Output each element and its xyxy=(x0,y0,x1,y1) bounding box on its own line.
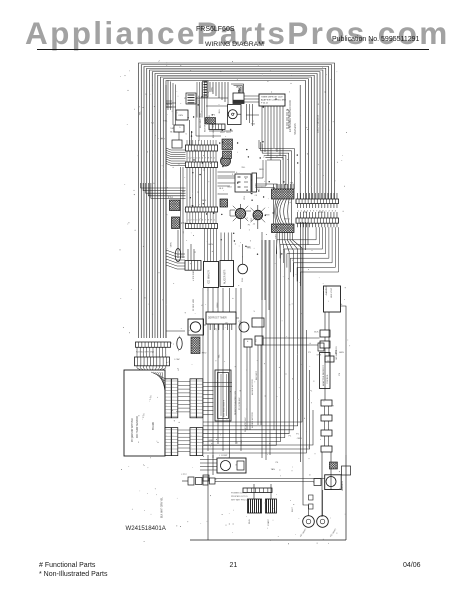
svg-text:TAN: TAN xyxy=(170,127,175,130)
svg-text:P 20 J4: P 20 J4 xyxy=(261,103,269,105)
svg-text:PROPER OUT CL: PROPER OUT CL xyxy=(231,496,249,498)
svg-text:RUN: RUN xyxy=(249,519,251,524)
svg-text:1: 1 xyxy=(214,158,216,160)
svg-text:··: ·· xyxy=(166,380,168,382)
svg-text:··: ·· xyxy=(166,448,168,450)
svg-text:··: ·· xyxy=(198,435,200,437)
svg-text:J2: J2 xyxy=(253,223,256,225)
svg-text:TAN: TAN xyxy=(271,468,276,471)
svg-text:BLK WHT ORN: BLK WHT ORN xyxy=(209,115,211,130)
svg-text:P4: P4 xyxy=(256,339,258,342)
svg-text:5: 5 xyxy=(310,211,312,213)
svg-text:CON 4: CON 4 xyxy=(318,212,326,214)
svg-text:··: ·· xyxy=(166,386,168,388)
svg-text:YEL: YEL xyxy=(181,191,186,193)
svg-text:# ICE MKR: # ICE MKR xyxy=(193,270,195,281)
svg-text:BLK: BLK xyxy=(202,200,207,202)
svg-text:FF DEF HTR: FF DEF HTR xyxy=(193,298,195,311)
svg-text:BLK WHT GRN YEL: BLK WHT GRN YEL xyxy=(162,496,164,518)
svg-text:··: ·· xyxy=(191,429,193,431)
svg-text:EXTENDER FRESH FOOD: EXTENDER FRESH FOOD xyxy=(288,100,292,132)
svg-text:HARNESS: HARNESS xyxy=(341,480,344,491)
svg-text:YEL: YEL xyxy=(241,167,246,169)
svg-text:··: ·· xyxy=(198,386,200,388)
svg-text:6: 6 xyxy=(202,220,204,222)
svg-text:DEFROST HEATER 120V: DEFROST HEATER 120V xyxy=(234,390,237,415)
svg-text:1: 1 xyxy=(214,220,216,222)
svg-text:LINE VOLT: LINE VOLT xyxy=(331,287,333,298)
svg-text:RED: RED xyxy=(241,439,243,444)
svg-text:5: 5 xyxy=(199,158,201,160)
svg-text:ADAPTIVE CONTROL BRD: ADAPTIVE CONTROL BRD xyxy=(261,99,286,102)
svg-text:6: 6 xyxy=(202,158,204,160)
svg-text:5: 5 xyxy=(186,133,188,135)
svg-text:FRZ TEMP SENSOR: FRZ TEMP SENSOR xyxy=(137,416,139,438)
svg-text:··: ·· xyxy=(191,393,193,395)
svg-text:YEL: YEL xyxy=(163,120,168,122)
svg-text:YEL: YEL xyxy=(244,195,246,200)
svg-text:8: 8 xyxy=(208,158,210,160)
svg-text:1: 1 xyxy=(188,158,190,160)
svg-text:TIMER DEFROST 120V: TIMER DEFROST 120V xyxy=(261,97,283,99)
svg-text:GRN: GRN xyxy=(316,355,321,357)
svg-text:P1: P1 xyxy=(248,224,251,226)
svg-text:··: ·· xyxy=(198,399,200,401)
svg-text:··: ·· xyxy=(173,412,175,414)
svg-text:W241518401A: W241518401A xyxy=(126,525,167,532)
svg-text:ORN: ORN xyxy=(297,438,302,440)
svg-text:BLK WHT ORN: BLK WHT ORN xyxy=(205,117,207,132)
svg-text:FILL: FILL xyxy=(242,277,244,282)
svg-text:BLK: BLK xyxy=(256,189,261,191)
svg-text:··: ·· xyxy=(191,405,193,407)
svg-text:SHT WRT PRL CO: SHT WRT PRL CO xyxy=(231,500,249,502)
svg-text:P4: P4 xyxy=(339,372,341,375)
svg-text:ORN: ORN xyxy=(212,87,214,92)
svg-text:8: 8 xyxy=(208,220,210,222)
svg-text:3: 3 xyxy=(193,220,195,222)
svg-text:AUGER MTR: AUGER MTR xyxy=(224,269,227,284)
svg-text:12: 12 xyxy=(269,442,271,445)
svg-text:BOARD: BOARD xyxy=(152,421,155,430)
svg-text:··: ·· xyxy=(191,435,193,437)
svg-text:5: 5 xyxy=(199,220,201,222)
svg-text:GRN: GRN xyxy=(339,352,344,354)
svg-text:BLU: BLU xyxy=(228,187,233,189)
svg-text:5995 P HARNESS: 5995 P HARNESS xyxy=(317,114,320,133)
svg-text:··: ·· xyxy=(173,405,175,407)
svg-text:GRN: GRN xyxy=(199,95,201,100)
svg-text:P4: P4 xyxy=(151,123,154,125)
svg-text:··: ·· xyxy=(166,429,168,431)
svg-text:BLK WHT: BLK WHT xyxy=(256,370,258,380)
svg-text:AUGER MOTOR: AUGER MOTOR xyxy=(251,379,254,395)
svg-text:5: 5 xyxy=(179,127,181,129)
svg-text:··: ·· xyxy=(198,448,200,450)
svg-text:P4: P4 xyxy=(213,115,216,117)
svg-text:WHT: WHT xyxy=(220,132,226,134)
svg-text:ADAPTIVE DEFROST: ADAPTIVE DEFROST xyxy=(322,364,325,386)
svg-text:3: 3 xyxy=(332,211,334,213)
svg-text:P4: P4 xyxy=(276,462,279,464)
svg-text:GRY: GRY xyxy=(275,234,277,239)
svg-text:4: 4 xyxy=(196,220,198,222)
svg-text:ORN: ORN xyxy=(178,115,183,117)
svg-text:HARNESS: HARNESS xyxy=(294,123,297,135)
svg-text:··: ·· xyxy=(191,412,193,414)
svg-text:P1: P1 xyxy=(289,436,292,438)
svg-text:··: ·· xyxy=(173,380,175,382)
svg-text:··: ·· xyxy=(198,429,200,431)
svg-text:P6 SENSOR WHT BLK: P6 SENSOR WHT BLK xyxy=(132,418,134,442)
svg-text:BRN: BRN xyxy=(217,302,219,307)
svg-text:2: 2 xyxy=(329,211,331,213)
svg-text:P1: P1 xyxy=(308,352,311,354)
svg-text:5: 5 xyxy=(237,443,239,445)
svg-text:FZ LIGHT: FZ LIGHT xyxy=(330,528,338,538)
svg-text:START: START xyxy=(267,518,270,526)
svg-text:··: ·· xyxy=(191,448,193,450)
svg-text:BRN: BRN xyxy=(265,214,270,216)
svg-text:··: ·· xyxy=(166,441,168,443)
svg-text:1: 1 xyxy=(188,220,190,222)
svg-text:··: ·· xyxy=(173,448,175,450)
svg-text:··: ·· xyxy=(191,399,193,401)
svg-text:··: ·· xyxy=(198,380,200,382)
svg-text:POWER OUT OF: POWER OUT OF xyxy=(231,493,248,495)
svg-text:DISP WTR VLV: DISP WTR VLV xyxy=(245,417,247,432)
svg-text:6: 6 xyxy=(313,211,315,213)
svg-text:BLK: BLK xyxy=(219,188,224,190)
svg-text:P1: P1 xyxy=(204,167,206,170)
svg-text:P1: P1 xyxy=(296,434,299,436)
svg-text:2: 2 xyxy=(190,220,192,222)
svg-text:BLU: BLU xyxy=(219,109,221,114)
svg-text:··: ·· xyxy=(198,393,200,395)
svg-text:4: 4 xyxy=(335,211,337,213)
svg-text:YEL: YEL xyxy=(219,353,221,358)
svg-text:P24 BLK WHT GRN: P24 BLK WHT GRN xyxy=(136,352,155,354)
svg-text:··: ·· xyxy=(191,441,193,443)
svg-text:# PTC: # PTC xyxy=(181,474,187,476)
svg-text:BLU: BLU xyxy=(226,132,231,134)
svg-text:1: 1 xyxy=(325,211,327,213)
svg-text:BRN: BRN xyxy=(285,219,290,221)
svg-text:··: ·· xyxy=(173,386,175,388)
svg-text:CONTROL: CONTROL xyxy=(327,373,329,384)
svg-text:J2: J2 xyxy=(216,327,218,330)
svg-text:WHT: WHT xyxy=(292,506,294,512)
svg-text:5: 5 xyxy=(263,156,265,158)
svg-text:BLK: BLK xyxy=(335,349,337,354)
svg-text:7: 7 xyxy=(205,158,207,160)
svg-text:# COMP: # COMP xyxy=(219,455,228,457)
svg-text:GRN: GRN xyxy=(208,244,213,246)
svg-text:BLK: BLK xyxy=(314,332,319,334)
svg-text:P1: P1 xyxy=(184,98,187,100)
svg-text:··: ·· xyxy=(173,429,175,431)
svg-text:DANGER: DANGER xyxy=(325,285,328,295)
svg-text:··: ·· xyxy=(166,435,168,437)
svg-text:4: 4 xyxy=(196,158,198,160)
svg-text:FFFFFFFFFFFFFF: FFFFFFFFFFFFFF xyxy=(224,399,226,417)
svg-text:12: 12 xyxy=(231,128,233,131)
svg-text:5: 5 xyxy=(254,311,256,313)
svg-text:BLK WHT ORN: BLK WHT ORN xyxy=(200,113,202,128)
svg-text:9: 9 xyxy=(211,158,213,160)
svg-text:WHT: WHT xyxy=(160,139,166,141)
svg-text:··: ·· xyxy=(166,412,168,414)
svg-text:ORN: ORN xyxy=(255,215,257,220)
svg-text:··: ·· xyxy=(198,441,200,443)
svg-text:7: 7 xyxy=(205,220,207,222)
svg-text:··: ·· xyxy=(191,386,193,388)
svg-text:BLU: BLU xyxy=(170,132,175,134)
svg-text:1: 1 xyxy=(298,211,300,213)
svg-text:··: ·· xyxy=(191,380,193,382)
svg-text:FF LIGHT: FF LIGHT xyxy=(300,528,308,538)
svg-text:··: ·· xyxy=(173,441,175,443)
svg-text:3: 3 xyxy=(193,158,195,160)
svg-text:# CAP: # CAP xyxy=(174,358,180,361)
svg-text:BLU: BLU xyxy=(167,103,169,108)
svg-text:··: ·· xyxy=(166,405,168,407)
svg-text:P4: P4 xyxy=(251,218,253,221)
svg-text:BRN: BRN xyxy=(259,169,264,171)
svg-text:TAN: TAN xyxy=(205,91,210,94)
svg-text:9: 9 xyxy=(211,220,213,222)
svg-text:··: ·· xyxy=(173,399,175,401)
svg-text:P1: P1 xyxy=(310,390,313,392)
svg-text:··: ·· xyxy=(166,393,168,395)
svg-text:··: ·· xyxy=(173,435,175,437)
svg-text:ICE MAKER: ICE MAKER xyxy=(208,270,211,284)
svg-text:RED: RED xyxy=(255,183,257,188)
svg-text:YEL: YEL xyxy=(290,183,295,185)
svg-text:2: 2 xyxy=(190,158,192,160)
svg-text:GRN: GRN xyxy=(208,440,213,442)
svg-text:··: ·· xyxy=(173,393,175,395)
svg-text:#8: #8 xyxy=(255,195,258,197)
svg-text:··: ·· xyxy=(198,412,200,414)
svg-text:TAN: TAN xyxy=(246,245,251,248)
svg-text:P12: P12 xyxy=(303,212,308,214)
svg-text:TAN: TAN xyxy=(251,123,256,126)
svg-text:ORN: ORN xyxy=(170,242,172,247)
svg-text:··: ·· xyxy=(198,405,200,407)
svg-text:P13 HTR BLK: P13 HTR BLK xyxy=(239,397,241,410)
svg-text:DEFROST TIMER: DEFROST TIMER xyxy=(208,318,227,320)
svg-text:4: 4 xyxy=(307,211,309,213)
svg-text:··: ·· xyxy=(166,399,168,401)
svg-text:AUGER MOTOR: AUGER MOTOR xyxy=(251,412,254,428)
svg-text:RED: RED xyxy=(202,353,207,355)
